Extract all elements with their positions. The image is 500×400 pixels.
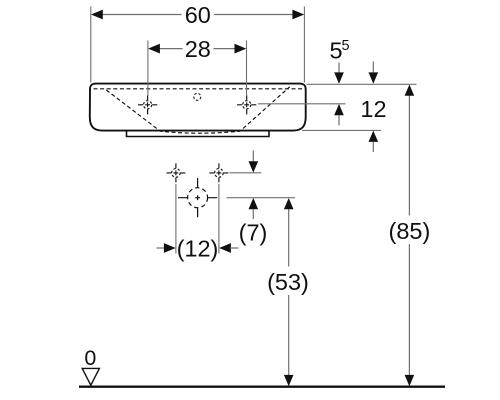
- svg-text:12: 12: [360, 96, 386, 122]
- dimension (53) vertical line upper segment: [288, 209, 290, 267]
- fixing hole level leader line: [230, 172, 262, 174]
- floor line: [79, 386, 445, 388]
- (12) right arrow: [219, 243, 231, 253]
- svg-text:28: 28: [185, 36, 211, 62]
- extension line right (12 holes): [218, 184, 220, 254]
- extension line left (12 holes): [175, 184, 177, 254]
- (12) left arrow: [157, 247, 166, 249]
- tap hole level leader line: [258, 103, 346, 105]
- dimension (85) vertical line lower segment: [408, 244, 410, 376]
- dashed bowl outline: [106, 87, 289, 133]
- apron / semi-pedestal: [127, 131, 270, 137]
- extension line left (60): [90, 7, 92, 83]
- down arrow (5.5 dim, upper): [338, 63, 340, 75]
- svg-text:(12): (12): [177, 236, 219, 262]
- arrowhead 28 right: [235, 44, 247, 54]
- arrowhead 60 right: [292, 10, 304, 20]
- dimension (85) vertical line upper segment: [408, 95, 410, 216]
- dimension line 28: [159, 48, 183, 50]
- svg-text:(53): (53): [267, 269, 309, 295]
- arrowhead 28 left: [148, 44, 160, 54]
- arrowhead (85) top: [405, 85, 415, 96]
- drain hole crosshair: [178, 178, 217, 217]
- svg-text:5: 5: [342, 38, 350, 54]
- floor level triangle symbol: [82, 368, 99, 385]
- up arrow (7 dim, lower): [249, 198, 259, 209]
- extension line right (60): [303, 7, 305, 83]
- svg-text:(7): (7): [239, 220, 268, 246]
- overflow dashed circle: [194, 93, 201, 100]
- washbasin body outline: [90, 84, 306, 131]
- down arrow (7 dim, upper): [252, 151, 254, 163]
- svg-text:(85): (85): [389, 218, 431, 244]
- dimension (53) vertical line lower segment: [288, 295, 290, 376]
- arrowhead (53) top: [284, 198, 294, 209]
- arrowhead (85) bottom: [405, 375, 415, 386]
- body bottom level line: [302, 129, 381, 131]
- svg-text:0: 0: [84, 346, 96, 370]
- fixing hole crosshair left: [166, 163, 185, 182]
- up arrow (5.5 dim, lower): [334, 104, 344, 115]
- dimension line 60: [102, 14, 182, 16]
- down arrow (12 dim, upper): [372, 62, 374, 74]
- tap hole crosshair right: [237, 95, 256, 114]
- rim level line: [307, 83, 417, 85]
- up arrow (12 dim, lower): [369, 131, 379, 142]
- tap hole crosshair left: [138, 95, 157, 114]
- drain level leader line: [227, 197, 296, 199]
- arrowhead (53) bottom: [284, 375, 294, 386]
- extension line right (28): [246, 41, 248, 97]
- extension line left (28): [147, 41, 149, 97]
- arrowhead 60 left: [91, 10, 103, 20]
- fixing hole crosshair right: [209, 163, 228, 182]
- dashed rim line: [94, 88, 303, 90]
- svg-text:60: 60: [185, 2, 211, 28]
